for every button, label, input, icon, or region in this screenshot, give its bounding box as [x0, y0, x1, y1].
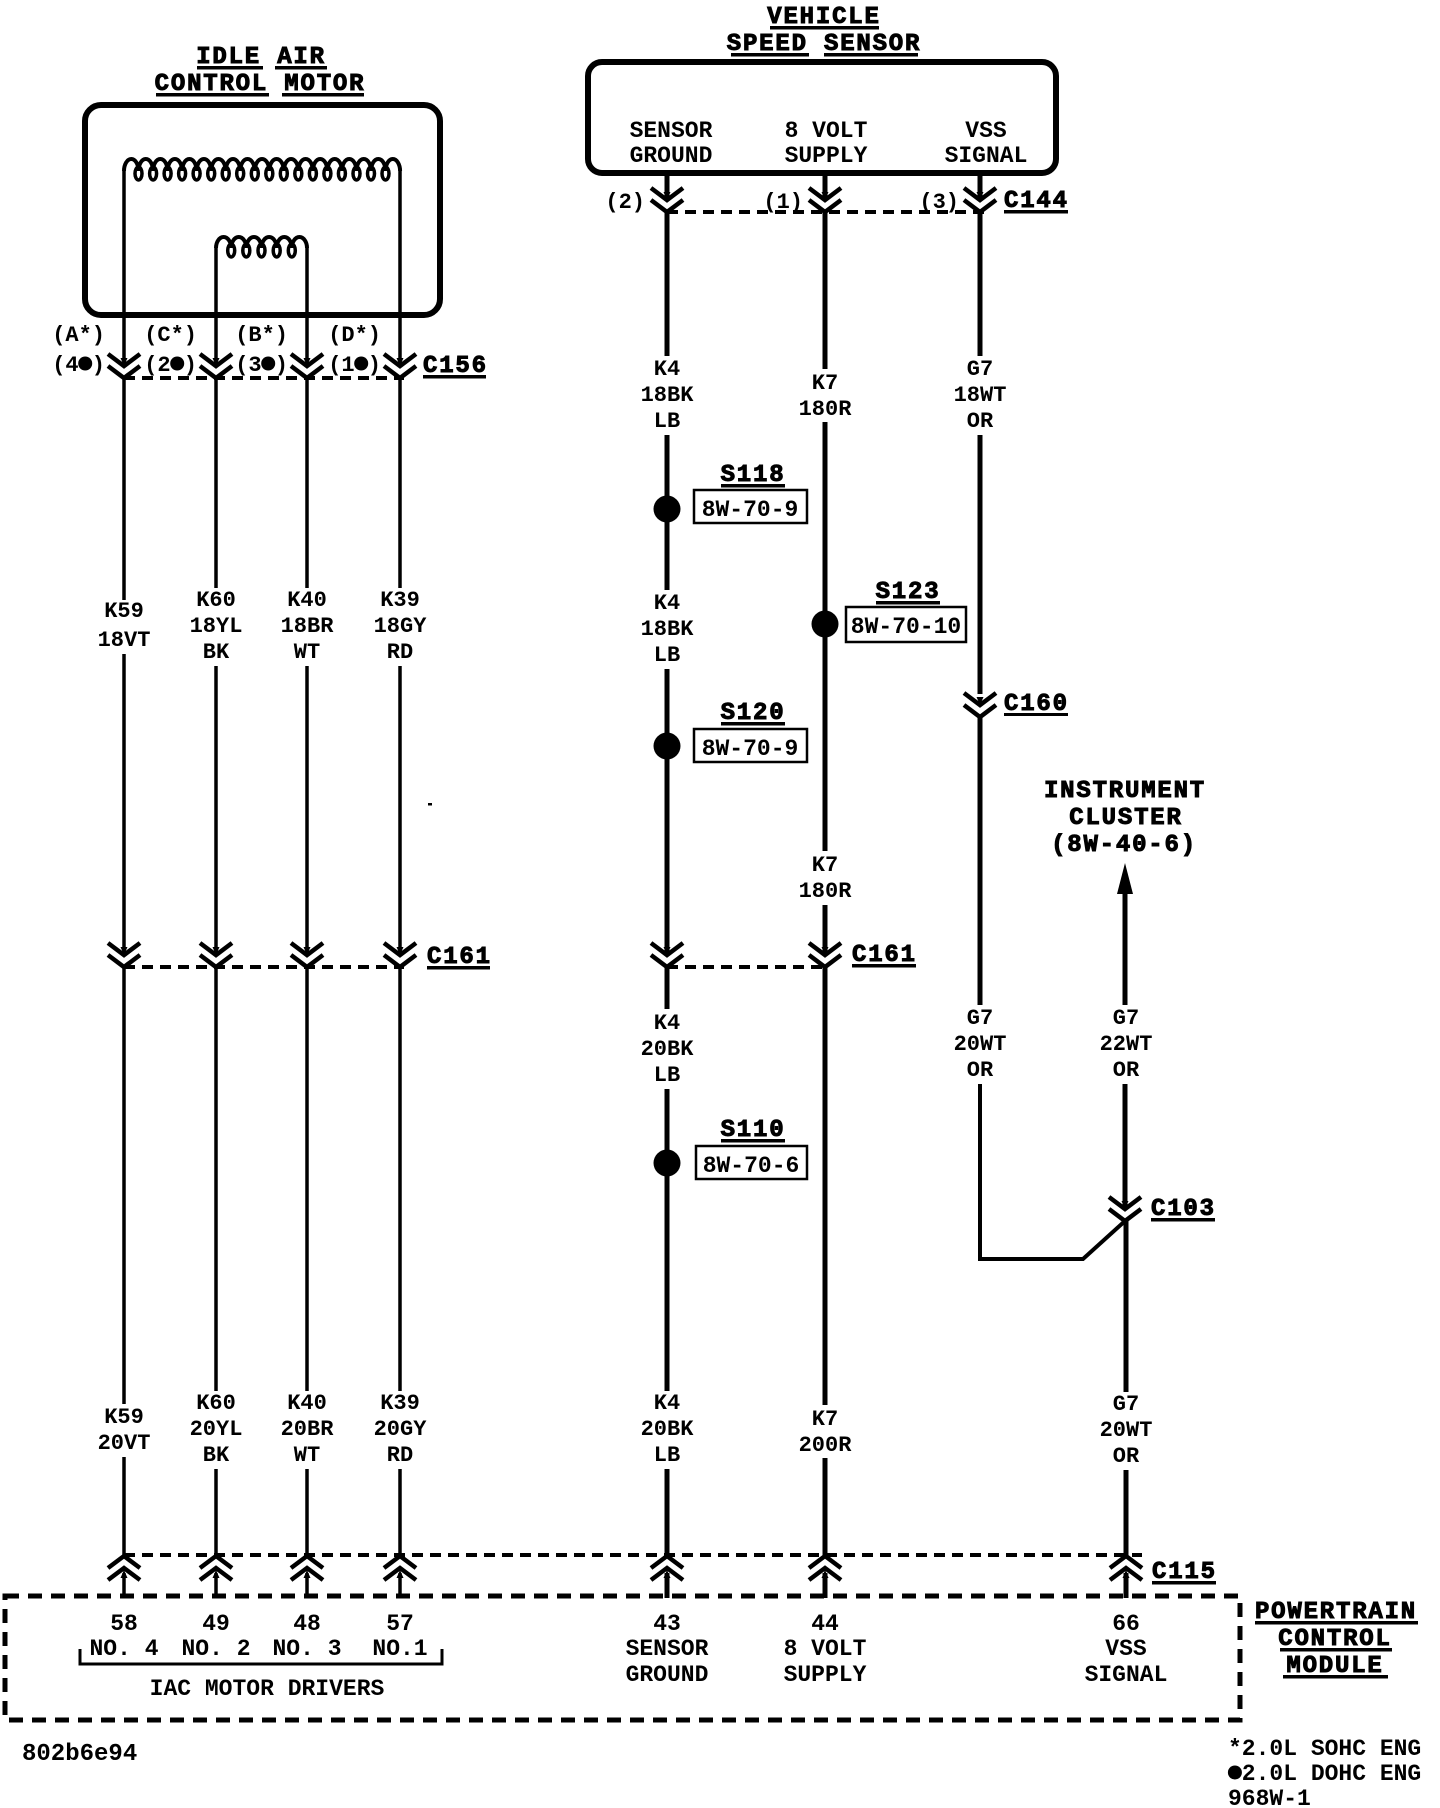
- svg-text:K39: K39: [380, 1391, 420, 1416]
- svg-text:(D*): (D*): [328, 323, 381, 348]
- wire G7 20WT OR to C115: [1124, 1470, 1129, 1556]
- box label 8 VOLT SUPPLY: [785, 118, 868, 169]
- svg-text:VSS: VSS: [1105, 1636, 1147, 1662]
- svg-text:20VT: 20VT: [98, 1431, 151, 1456]
- wire K7 180R upper: [823, 212, 828, 369]
- wire K4 18BK LB lower (through splice S120): [665, 669, 670, 955]
- svg-text:CLUSTER: CLUSTER: [1069, 805, 1182, 832]
- svg-text:G7: G7: [1113, 1392, 1139, 1417]
- connector label C160: [1004, 691, 1069, 718]
- svg-text:SIGNAL: SIGNAL: [1085, 1662, 1168, 1688]
- splice S118 label: [721, 462, 786, 489]
- svg-text:RD: RD: [387, 640, 413, 665]
- svg-text:BK: BK: [203, 640, 230, 665]
- svg-text:66: 66: [1112, 1611, 1140, 1637]
- svg-text:(8W-40-6): (8W-40-6): [1051, 832, 1197, 859]
- label G7 22WT OR: [1100, 1006, 1153, 1083]
- svg-text:K40: K40: [287, 1391, 327, 1416]
- wire stub pin 48: [305, 1573, 309, 1598]
- wire K40 18BR WT upper: [305, 378, 309, 588]
- svg-text:GROUND: GROUND: [626, 1662, 709, 1688]
- label K60 20YL BK: [190, 1391, 243, 1468]
- svg-text:LB: LB: [654, 409, 680, 434]
- pin label VSS SIGNAL: [1085, 1636, 1168, 1688]
- svg-text:BK: BK: [203, 1443, 230, 1468]
- svg-text:NO. 4: NO. 4: [89, 1636, 158, 1662]
- connector C144 chevron pin 2: [651, 188, 683, 212]
- svg-text:802b6e94: 802b6e94: [22, 1741, 137, 1768]
- pin label SENSOR GROUND: [626, 1636, 709, 1688]
- svg-text:8 VOLT: 8 VOLT: [784, 1636, 867, 1662]
- svg-text:20WT: 20WT: [1100, 1418, 1153, 1443]
- connector C161 chevron wire K7: [809, 943, 841, 967]
- connector C115 chevron pin 57: [384, 1556, 416, 1580]
- svg-text:2.0L DOHC ENG: 2.0L DOHC ENG: [1228, 1761, 1421, 1787]
- label G7 20WT OR (bottom): [1100, 1392, 1153, 1469]
- svg-text:K40: K40: [287, 588, 327, 613]
- splice S110 dot: [654, 1150, 681, 1177]
- svg-text:SIGNAL: SIGNAL: [945, 143, 1028, 169]
- svg-text:K59: K59: [104, 1405, 144, 1430]
- svg-text:8W-70-6: 8W-70-6: [703, 1153, 800, 1179]
- svg-text:18WT: 18WT: [954, 383, 1007, 408]
- title IDLE AIR: [196, 44, 327, 71]
- svg-text:18BR: 18BR: [281, 614, 335, 639]
- svg-text:OR: OR: [1113, 1058, 1140, 1083]
- svg-text:LB: LB: [654, 643, 680, 668]
- svg-text:SENSOR: SENSOR: [630, 118, 713, 144]
- wire K40 18BR WT lower: [305, 666, 309, 955]
- svg-text:OR: OR: [967, 409, 994, 434]
- connector C161 chevron wire K4: [651, 943, 683, 967]
- wire K7 200R lower: [823, 1458, 828, 1556]
- wire K39 segment inside motor to C156: [398, 171, 402, 366]
- svg-text:20BR: 20BR: [281, 1417, 335, 1442]
- wire K4 20BK LB upper: [665, 967, 670, 1009]
- svg-text:K7: K7: [812, 371, 838, 396]
- wire K59 segment inside motor to C156: [122, 171, 126, 366]
- wire K4 18BK LB upper: [665, 212, 670, 356]
- svg-text:G7: G7: [967, 1006, 993, 1031]
- wire stub pin 57: [398, 1573, 402, 1598]
- wire K4 20BK LB mid (through splice S110): [665, 1089, 670, 1391]
- wire stub pin 44: [823, 1573, 828, 1598]
- svg-text:OR: OR: [967, 1058, 994, 1083]
- wire K39 18GY RD upper: [398, 378, 402, 588]
- title SPEED SENSOR: [727, 31, 921, 58]
- svg-text:INSTRUMENT: INSTRUMENT: [1044, 778, 1206, 805]
- label K39 20GY RD: [374, 1391, 428, 1468]
- label K40 18BR WT: [281, 588, 335, 665]
- connector C103 chevron: [1109, 1197, 1141, 1221]
- svg-text:GROUND: GROUND: [630, 143, 713, 169]
- svg-text:SENSOR: SENSOR: [626, 1636, 709, 1662]
- connector C115 chevron pin 58: [108, 1556, 140, 1580]
- connector C161 chevron wire K39: [384, 943, 416, 967]
- svg-text:K60: K60: [196, 588, 236, 613]
- connector label C156: [423, 353, 488, 380]
- wire K7 200R upper: [823, 967, 828, 1405]
- connector C144 dashed line: [667, 210, 990, 214]
- splice S110 reference box 8W-70-6: [696, 1146, 807, 1179]
- label G7 18WT OR: [954, 357, 1007, 434]
- svg-text:K7: K7: [812, 1407, 838, 1432]
- connector C161 chevron wire K60: [200, 943, 232, 967]
- svg-text:K7: K7: [812, 853, 838, 878]
- label K59 18VT: [98, 599, 151, 653]
- label K4 20BK LB: [641, 1011, 695, 1088]
- wire G7 20WT OR upper (from C160): [978, 717, 983, 1005]
- IAC motor drivers bracket: [80, 1649, 442, 1664]
- svg-text:IAC MOTOR DRIVERS: IAC MOTOR DRIVERS: [150, 1676, 385, 1702]
- powertrain control module box: [5, 1596, 1240, 1720]
- svg-text:968W-1: 968W-1: [1228, 1786, 1311, 1808]
- svg-text:20GY: 20GY: [374, 1417, 428, 1442]
- splice S123 label: [876, 579, 941, 606]
- splice S118 dot: [654, 496, 681, 523]
- label K4 18BK LB: [641, 357, 695, 434]
- svg-text:180R: 180R: [799, 879, 853, 904]
- wire K40 20BR WT lower: [305, 1469, 309, 1556]
- svg-text:OR: OR: [1113, 1444, 1140, 1469]
- svg-text:WT: WT: [294, 640, 320, 665]
- svg-text:8 VOLT: 8 VOLT: [785, 118, 868, 144]
- svg-text:200R: 200R: [799, 1433, 853, 1458]
- connector C161 dashed line (left): [124, 965, 404, 969]
- title VEHICLE: [767, 4, 880, 31]
- svg-text:18BK: 18BK: [641, 383, 695, 408]
- stray mark: [428, 803, 432, 806]
- connector C161 chevron wire K59: [108, 943, 140, 967]
- wire K59 20VT lower: [122, 1457, 126, 1556]
- pin label 8 VOLT SUPPLY: [784, 1636, 867, 1688]
- box label VSS SIGNAL: [945, 118, 1028, 169]
- wire G7 20WT OR jog to C103: [980, 1084, 1125, 1259]
- connector C160 chevron: [964, 693, 996, 717]
- arrow to instrument cluster: [1117, 863, 1133, 894]
- svg-text:58: 58: [110, 1611, 138, 1637]
- wire K40 20BR WT upper: [305, 967, 309, 1391]
- wire G7 18WT OR upper: [978, 212, 983, 356]
- splice S120 reference box 8W-70-9: [694, 729, 807, 762]
- label K7 180R: [799, 371, 853, 422]
- connector label C161 (left): [427, 944, 492, 971]
- wire stub pin 58: [122, 1573, 126, 1598]
- connector label C115: [1152, 1559, 1217, 1586]
- svg-text:8W-70-10: 8W-70-10: [851, 614, 961, 640]
- connector C144 chevron pin 1: [809, 188, 841, 212]
- label K40 20BR WT: [281, 1391, 335, 1468]
- svg-text:44: 44: [811, 1611, 839, 1637]
- svg-text:K4: K4: [654, 1391, 680, 1416]
- svg-text:LB: LB: [654, 1063, 680, 1088]
- wire K59 18VT upper: [122, 378, 126, 600]
- wire K60 20YL BK upper: [214, 967, 218, 1391]
- wire stub pin 66: [1124, 1573, 1129, 1598]
- svg-text:NO. 2: NO. 2: [181, 1636, 250, 1662]
- svg-text:K4: K4: [654, 1011, 680, 1036]
- label POWERTRAIN CONTROL MODULE: [1255, 1599, 1418, 1680]
- wire K39 20GY RD upper: [398, 967, 402, 1391]
- svg-text:K4: K4: [654, 591, 680, 616]
- connector C156 chevron wire K60: [200, 354, 232, 378]
- label K60 18YL BK: [190, 588, 243, 665]
- wire stub pin 49: [214, 1573, 218, 1598]
- svg-text:20WT: 20WT: [954, 1032, 1007, 1057]
- svg-text:22WT: 22WT: [1100, 1032, 1153, 1057]
- connector label C161 (middle): [852, 942, 917, 969]
- svg-text:20BK: 20BK: [641, 1037, 695, 1062]
- wire K60 segment inside motor to C156: [214, 248, 218, 366]
- svg-text:49: 49: [202, 1611, 230, 1637]
- svg-text:18VT: 18VT: [98, 628, 151, 653]
- svg-text:SUPPLY: SUPPLY: [784, 1662, 867, 1688]
- idle air control motor box: [85, 105, 440, 315]
- coil L1 (main winding): [124, 159, 400, 180]
- label INSTRUMENT CLUSTER (8W-40-6): [1044, 778, 1206, 859]
- svg-text:(C*): (C*): [144, 323, 197, 348]
- wire K60 18YL BK upper: [214, 378, 218, 588]
- splice S120 dot: [654, 733, 681, 760]
- splice S123 reference box 8W-70-10: [846, 607, 966, 642]
- svg-text:48: 48: [293, 1611, 321, 1637]
- svg-text:K60: K60: [196, 1391, 236, 1416]
- coil L2 (secondary winding): [216, 237, 307, 257]
- wire stub pin 43: [665, 1573, 670, 1598]
- svg-text:LB: LB: [654, 1443, 680, 1468]
- svg-text:8W-70-9: 8W-70-9: [702, 736, 799, 762]
- wire K40 segment inside motor to C156: [305, 248, 309, 366]
- svg-text:K59: K59: [104, 599, 144, 624]
- connector label C144: [1004, 188, 1069, 215]
- svg-text:(B*): (B*): [235, 323, 288, 348]
- label K59 20VT: [98, 1405, 151, 1456]
- wire G7 18WT OR lower: [978, 435, 983, 694]
- splice S110 label: [721, 1117, 786, 1144]
- svg-text:VSS: VSS: [965, 118, 1007, 144]
- svg-text:180R: 180R: [799, 397, 853, 422]
- wire K7 180R lower: [823, 905, 828, 955]
- wire K39 18GY RD lower: [398, 666, 402, 955]
- splice S120 label: [721, 700, 786, 727]
- title CONTROL MOTOR: [155, 71, 366, 98]
- connector C156 dashed line: [124, 376, 404, 380]
- wire K4 20BK LB lower: [665, 1469, 670, 1556]
- svg-text:K4: K4: [654, 357, 680, 382]
- svg-text:G7: G7: [967, 357, 993, 382]
- wire vss stub from box: [978, 173, 983, 200]
- connector C115 chevron pin 66: [1110, 1556, 1142, 1580]
- svg-text:*2.0L SOHC ENG: *2.0L SOHC ENG: [1228, 1736, 1421, 1762]
- connector C115 chevron pin 43: [651, 1556, 683, 1580]
- svg-text:(A*): (A*): [52, 323, 105, 348]
- label K39 18GY RD: [374, 588, 428, 665]
- connector C156 chevron wire K59: [108, 354, 140, 378]
- connector label C103: [1151, 1196, 1216, 1223]
- wire G7 20WT OR below C103: [1124, 1221, 1129, 1392]
- connector C144 chevron pin 3: [964, 188, 996, 212]
- label K4 18BK LB (second): [641, 591, 695, 668]
- wire G7 22WT OR upper (arrow shaft): [1123, 890, 1128, 1005]
- wire K39 20GY RD lower: [398, 1469, 402, 1556]
- connector C156 chevron wire K40: [291, 354, 323, 378]
- wire K59 18VT lower: [122, 654, 126, 955]
- svg-text:NO. 3: NO. 3: [272, 1636, 341, 1662]
- connector C115 chevron pin 44: [809, 1556, 841, 1580]
- label K7 200R: [799, 1407, 853, 1458]
- wire 8 volt stub from box: [823, 173, 828, 200]
- svg-text:G7: G7: [1113, 1006, 1139, 1031]
- svg-text:RD: RD: [387, 1443, 413, 1468]
- svg-text:8W-70-9: 8W-70-9: [702, 497, 799, 523]
- label K7 180R (second): [799, 853, 853, 904]
- svg-text:WT: WT: [294, 1443, 320, 1468]
- label G7 20WT OR: [954, 1006, 1007, 1083]
- svg-text:(2): (2): [605, 190, 645, 215]
- wire sensor ground stub from box: [665, 173, 670, 200]
- svg-text:20BK: 20BK: [641, 1417, 695, 1442]
- wire K59 20VT upper: [122, 967, 126, 1404]
- vehicle speed sensor box: [588, 62, 1056, 173]
- svg-text:K39: K39: [380, 588, 420, 613]
- svg-text:43: 43: [653, 1611, 681, 1637]
- svg-text:57: 57: [386, 1611, 414, 1637]
- connector C115 dashed line: [124, 1553, 1142, 1557]
- wire K4 18BK LB mid (through splice S118): [665, 435, 670, 590]
- svg-text:18YL: 18YL: [190, 614, 243, 639]
- splice S123 dot: [812, 611, 839, 638]
- connector C115 chevron pin 48: [291, 1556, 323, 1580]
- connector C156 chevron wire K39: [384, 354, 416, 378]
- wire K60 18YL BK lower: [214, 666, 218, 955]
- svg-text:20YL: 20YL: [190, 1417, 243, 1442]
- wire K60 20YL BK lower: [214, 1469, 218, 1556]
- svg-text:18BK: 18BK: [641, 617, 695, 642]
- connector C115 chevron pin 49: [200, 1556, 232, 1580]
- wire K7 180R mid (through splice S123): [823, 422, 828, 851]
- svg-text:NO.1: NO.1: [372, 1636, 427, 1662]
- wire G7 22WT OR lower to C103: [1123, 1084, 1128, 1210]
- svg-text:18GY: 18GY: [374, 614, 428, 639]
- svg-text:SUPPLY: SUPPLY: [785, 143, 868, 169]
- connector C161 dashed line (middle): [667, 965, 825, 969]
- box label SENSOR GROUND: [630, 118, 713, 169]
- connector C161 chevron wire K40: [291, 943, 323, 967]
- splice S118 reference box 8W-70-9: [694, 490, 807, 523]
- label K4 20BK LB (bottom): [641, 1391, 695, 1468]
